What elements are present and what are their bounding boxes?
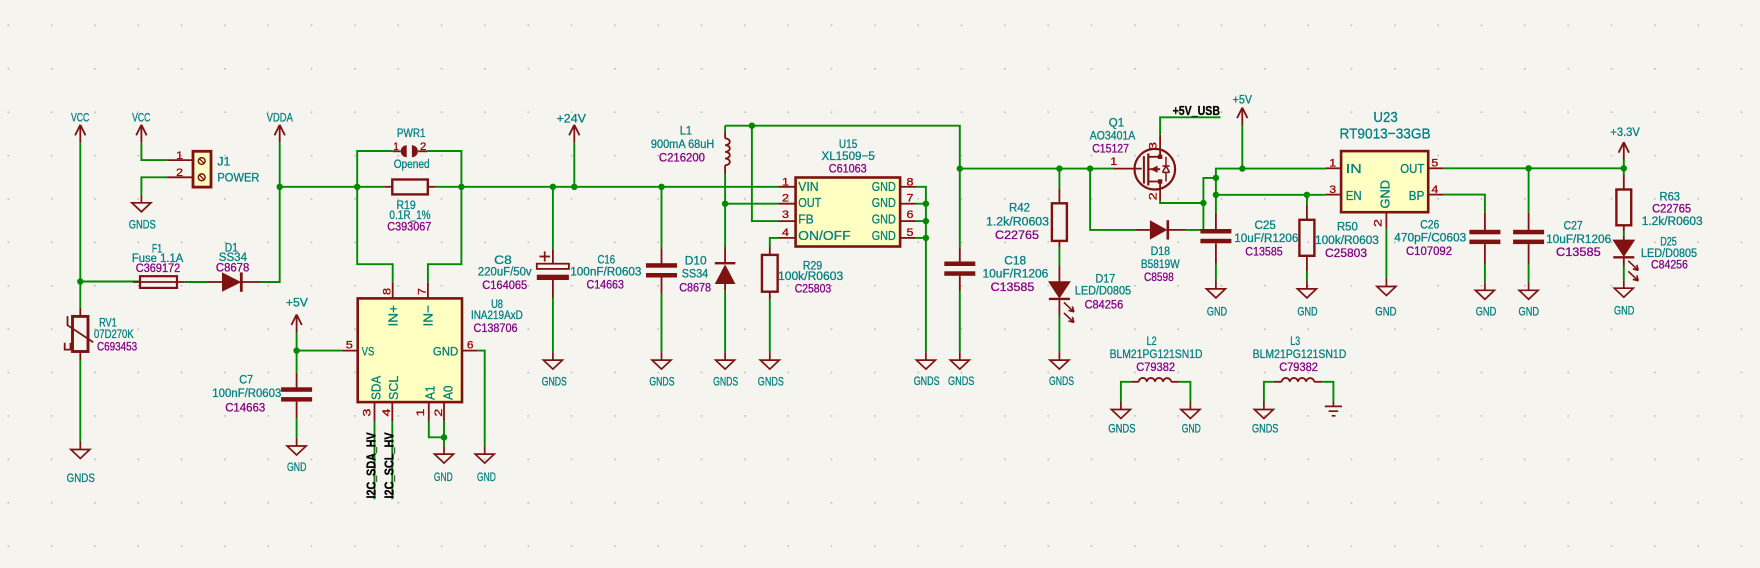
- IC U8 INA219AxD body: [358, 282, 462, 402]
- pin stub U8 VS: [342, 350, 358, 352]
- svg-text:IN+: IN+: [385, 305, 400, 327]
- ground GND (C26): [1475, 282, 1496, 318]
- svg-text:1: 1: [176, 150, 183, 162]
- earth ground (L3 right): [1325, 402, 1342, 416]
- svg-text:L1: L1: [680, 124, 692, 138]
- ground GNDS (C18): [948, 352, 974, 388]
- svg-text:C25803: C25803: [1325, 246, 1367, 260]
- junction EN / R50: [1304, 192, 1310, 198]
- svg-text:OUT: OUT: [798, 195, 821, 210]
- svg-text:C13585: C13585: [1245, 244, 1283, 258]
- svg-text:C8598: C8598: [1144, 270, 1174, 284]
- junction +5V / VS / C7: [293, 347, 299, 353]
- wire PWR1 left leg: [357, 151, 393, 187]
- resistor R42 1.2k: [986, 169, 1067, 266]
- svg-text:2: 2: [176, 167, 183, 179]
- svg-text:C84256: C84256: [1085, 298, 1124, 312]
- svg-text:GND: GND: [1519, 305, 1540, 319]
- junction rail / R42: [1056, 165, 1062, 171]
- jumper PWR1 Opened: [393, 126, 430, 171]
- svg-text:3: 3: [782, 209, 789, 221]
- ferrite bead L2 BLM21PG121SN1D: [1110, 334, 1203, 382]
- svg-text:R42: R42: [1009, 201, 1030, 215]
- wire F1 to D1: [184, 281, 207, 283]
- junction VDDA / main rail: [277, 184, 283, 190]
- power symbol VCC (far left): [71, 111, 89, 143]
- svg-text:10uF/R1206: 10uF/R1206: [1234, 231, 1298, 245]
- svg-text:GNDS: GNDS: [1252, 422, 1278, 436]
- junction EN tap: [1213, 192, 1219, 198]
- junction rail / PWR1 left: [354, 184, 360, 190]
- capacitor C18 10uF: [944, 169, 1048, 353]
- pin stub U15 GND6: [900, 220, 916, 222]
- svg-text:C8678: C8678: [679, 281, 711, 295]
- pin stub U15 ON/OFF: [779, 237, 796, 239]
- wire Q1 drain: [1160, 201, 1203, 203]
- svg-text:C79382: C79382: [1279, 360, 1318, 374]
- svg-text:8: 8: [381, 288, 393, 295]
- svg-text:10uF/R1206: 10uF/R1206: [983, 267, 1049, 281]
- svg-text:VCC: VCC: [132, 111, 150, 125]
- power symbol +5V (U8): [286, 296, 309, 333]
- wire U23 BP to C26: [1443, 195, 1485, 213]
- svg-text:GND: GND: [1476, 305, 1497, 319]
- ground GNDS (under J1): [129, 195, 156, 232]
- ground GND (C27): [1519, 282, 1540, 318]
- svg-text:1: 1: [782, 177, 789, 189]
- ground GNDS (RV1): [67, 442, 95, 486]
- capacitor C25 10uF: [1200, 213, 1298, 281]
- svg-text:A1: A1: [423, 386, 438, 401]
- connector J1 POWER: [167, 151, 211, 187]
- LED D25: [1613, 234, 1697, 280]
- svg-text:GND: GND: [1375, 305, 1396, 319]
- pin stub SDA: [374, 402, 376, 421]
- svg-text:B5819W: B5819W: [1141, 257, 1180, 271]
- diode D10 SS34 catch: [679, 204, 735, 352]
- svg-text:C27: C27: [1564, 219, 1583, 233]
- wire FB feedback: [752, 126, 779, 221]
- ground GND (R50): [1297, 281, 1317, 319]
- svg-text:GND: GND: [1614, 304, 1634, 318]
- svg-text:EN: EN: [1346, 188, 1362, 203]
- svg-text:GND: GND: [477, 470, 496, 484]
- svg-text:ON/OFF: ON/OFF: [798, 228, 850, 243]
- wire RV1 to GNDS: [79, 360, 81, 442]
- wire U15 GND bus: [916, 187, 926, 352]
- svg-text:100nF/R0603: 100nF/R0603: [570, 265, 641, 279]
- svg-text:C13585: C13585: [991, 280, 1035, 294]
- wire SDA net: [374, 421, 376, 499]
- wire D1 to VDDA rail: [260, 187, 280, 282]
- wire L3 left to GNDS: [1264, 382, 1274, 402]
- svg-text:SS34: SS34: [682, 267, 709, 281]
- junction GND bus pin5: [923, 235, 929, 241]
- svg-text:GNDS: GNDS: [758, 375, 784, 389]
- svg-text:I2C_SCL_HV: I2C_SCL_HV: [383, 432, 397, 499]
- svg-text:+5V: +5V: [286, 296, 309, 310]
- pin stub U8 GND pin 6: [462, 350, 478, 352]
- junction VCC/F1/RV1 node: [77, 278, 83, 284]
- svg-text:7: 7: [417, 288, 429, 295]
- wire L2 left to GNDS: [1121, 382, 1131, 402]
- pin stub A1: [428, 402, 430, 421]
- wire rail R19 to U15 VIN: [436, 186, 779, 188]
- power symbol +24V: [557, 112, 587, 143]
- svg-text:VDDA: VDDA: [267, 111, 294, 125]
- pin stub U15 VIN: [779, 186, 796, 188]
- svg-text:LED/D0805: LED/D0805: [1075, 284, 1131, 298]
- diode D18 B5819W: [1135, 220, 1185, 284]
- svg-text:RT9013−33GB: RT9013−33GB: [1340, 126, 1431, 143]
- svg-text:GND: GND: [872, 212, 896, 227]
- svg-text:C7: C7: [239, 373, 253, 387]
- svg-text:C15127: C15127: [1092, 142, 1129, 156]
- ground GNDS (C16): [649, 352, 674, 389]
- wire +24V stem: [573, 143, 575, 187]
- svg-text:1: 1: [1110, 156, 1117, 168]
- wire D18 cathode to +5V node: [1186, 203, 1204, 230]
- junction rail / PWR1 right: [458, 184, 464, 190]
- svg-text:GND: GND: [1377, 180, 1392, 209]
- wire +5V column to U23 IN: [1216, 169, 1326, 213]
- capacitor C27 10uF: [1513, 168, 1611, 282]
- svg-text:SDA: SDA: [369, 376, 384, 400]
- svg-text:PWR1: PWR1: [397, 126, 426, 140]
- wire buck output rail (5V from L1): [725, 126, 960, 169]
- svg-text:+3.3V: +3.3V: [1610, 125, 1640, 139]
- svg-text:Opened: Opened: [394, 157, 430, 171]
- svg-text:R50: R50: [1337, 220, 1358, 234]
- svg-text:GND: GND: [434, 470, 453, 484]
- svg-text:1: 1: [1329, 158, 1336, 170]
- svg-text:10uF/R1206: 10uF/R1206: [1546, 232, 1611, 246]
- pin stub U15 OUT: [779, 203, 796, 205]
- junction +5V node / C25 column: [1213, 175, 1219, 181]
- wire EN line: [1216, 194, 1326, 196]
- diode D1 SS34: [207, 240, 260, 291]
- wire +5V node down to C7: [296, 351, 298, 373]
- junction switch node (L1/OUT/D10): [722, 201, 728, 207]
- capacitor C8 220uF electrolytic: [478, 187, 569, 352]
- junction GND bus pin6: [923, 218, 929, 224]
- wire 5V rail to Q1 gate: [960, 168, 1114, 170]
- svg-text:AO3401A: AO3401A: [1090, 129, 1136, 143]
- wire main input rail to R19: [280, 186, 385, 188]
- ground GND (under C7): [287, 438, 306, 474]
- svg-text:100nF/R0603: 100nF/R0603: [212, 386, 281, 400]
- IC U15 XL1509-5 body: [796, 178, 901, 247]
- ground GNDS (L2 left): [1108, 402, 1135, 436]
- resistor R29 100k: [762, 238, 843, 352]
- svg-text:GND: GND: [872, 228, 896, 243]
- ground GNDS (L3 left): [1252, 402, 1278, 436]
- svg-text:C14663: C14663: [587, 278, 625, 292]
- wire U23 GND to ground: [1385, 229, 1387, 279]
- svg-text:C79382: C79382: [1136, 360, 1175, 374]
- ground GND (A0/A1): [434, 446, 454, 484]
- ground GNDS (U15): [914, 352, 940, 388]
- wire U23 OUT rail: [1443, 167, 1623, 169]
- pin stub A0: [443, 402, 445, 421]
- svg-text:1.2k/R0603: 1.2k/R0603: [1642, 214, 1703, 228]
- svg-text:+24V: +24V: [557, 112, 587, 126]
- ground GNDS (R29): [758, 352, 784, 389]
- svg-text:VS: VS: [362, 344, 375, 358]
- svg-text:IN−: IN−: [421, 305, 436, 327]
- capacitor C16 100nF: [570, 187, 677, 352]
- svg-text:7: 7: [907, 193, 914, 205]
- wire L1 to OUT node: [724, 174, 726, 204]
- resistor R50 100k: [1299, 195, 1379, 281]
- svg-text:C25803: C25803: [795, 282, 832, 296]
- svg-text:900mA 68uH: 900mA 68uH: [651, 137, 714, 151]
- svg-text:GNDS: GNDS: [1108, 422, 1135, 436]
- ground GNDS (D17): [1049, 352, 1074, 388]
- svg-text:8: 8: [907, 177, 914, 189]
- svg-text:+5V: +5V: [1233, 93, 1253, 107]
- svg-text:5: 5: [1431, 158, 1438, 170]
- svg-text:C693453: C693453: [97, 340, 137, 354]
- fuse F1: [80, 241, 184, 288]
- pin stub U15 GND8: [900, 186, 916, 188]
- svg-text:Q1: Q1: [1109, 116, 1124, 130]
- svg-text:GNDS: GNDS: [1049, 374, 1074, 388]
- svg-text:GNDS: GNDS: [649, 375, 674, 389]
- svg-text:C84256: C84256: [1651, 258, 1688, 272]
- svg-text:IN: IN: [1346, 161, 1362, 176]
- svg-text:D10: D10: [685, 254, 707, 268]
- svg-text:C26: C26: [1420, 217, 1439, 231]
- svg-text:L2: L2: [1147, 334, 1157, 348]
- wire SCL net: [391, 421, 393, 499]
- ferrite bead L3 BLM21PG121SN1D: [1253, 334, 1347, 382]
- ground GND (D25): [1614, 280, 1634, 317]
- svg-text:1: 1: [393, 141, 398, 153]
- svg-text:C107092: C107092: [1406, 244, 1452, 258]
- junction +5V node (drain/D18): [1200, 200, 1206, 206]
- svg-text:GNDS: GNDS: [67, 471, 95, 485]
- svg-text:VIN: VIN: [798, 179, 818, 194]
- wire D18 anode branch: [1090, 169, 1135, 230]
- svg-text:3: 3: [1329, 184, 1336, 196]
- pin stub U23 BP: [1428, 194, 1443, 196]
- svg-text:C216200: C216200: [659, 151, 705, 165]
- svg-text:GND: GND: [872, 179, 896, 194]
- svg-text:VCC: VCC: [71, 111, 89, 125]
- svg-text:C22765: C22765: [995, 228, 1039, 242]
- power symbol +3.3V: [1610, 125, 1640, 160]
- svg-text:1.2k/R0603: 1.2k/R0603: [986, 215, 1049, 229]
- svg-text:D18: D18: [1151, 244, 1171, 258]
- capacitor C26 470pF: [1394, 212, 1500, 282]
- power symbol VCC (J1): [132, 111, 150, 143]
- svg-text:GNDS: GNDS: [914, 374, 940, 388]
- svg-text:1: 1: [415, 409, 427, 417]
- junction +24V / rail: [571, 184, 577, 190]
- junction +5V arrow / IN rail: [1239, 165, 1245, 171]
- wire U8 pin 6 to GND: [478, 351, 485, 447]
- pin stub U23 GND: [1385, 212, 1387, 229]
- wire PWR1 right leg: [427, 151, 461, 187]
- svg-text:2: 2: [1373, 219, 1385, 227]
- wire J1 pin 2 to GNDS: [141, 177, 167, 195]
- wire Q1 source to +5V_USB: [1160, 117, 1220, 134]
- wire VCC to J1 pin 1: [141, 143, 167, 160]
- junction OUT / C27: [1525, 165, 1531, 171]
- svg-text:FB: FB: [798, 212, 814, 227]
- wire VCC down to F1 node: [79, 143, 81, 282]
- svg-text:GND: GND: [433, 345, 459, 359]
- ground GND (U23 pin2): [1375, 279, 1396, 319]
- svg-text:2: 2: [1147, 192, 1159, 200]
- pin stub U23 OUT: [1428, 167, 1443, 169]
- wire L3 right to earth: [1322, 382, 1333, 402]
- svg-text:C138706: C138706: [474, 321, 518, 335]
- svg-text:A0: A0: [440, 386, 455, 401]
- pin stub U23 IN: [1326, 167, 1341, 169]
- svg-text:GND: GND: [1207, 305, 1227, 319]
- svg-text:BLM21PG121SN1D: BLM21PG121SN1D: [1253, 347, 1347, 361]
- svg-text:+5V_USB: +5V_USB: [1173, 104, 1220, 118]
- capacitor C7 100nF: [212, 373, 312, 439]
- wire +5V stem (right): [1241, 125, 1243, 169]
- svg-text:INA219AxD: INA219AxD: [471, 308, 523, 322]
- inductor L1 68uH: [651, 124, 730, 174]
- wire +3.3V stem: [1623, 160, 1625, 169]
- wire A1 to A0: [429, 421, 444, 437]
- wire L2 right to GND: [1179, 382, 1190, 402]
- ground GNDS (C8): [542, 352, 567, 389]
- svg-text:GND: GND: [872, 195, 896, 210]
- svg-text:5: 5: [907, 227, 914, 239]
- svg-text:3: 3: [361, 409, 373, 417]
- junction OUT / +3.3V / R63: [1621, 165, 1627, 171]
- svg-text:220uF/50v: 220uF/50v: [478, 265, 532, 279]
- svg-text:GND: GND: [1182, 422, 1201, 436]
- power symbol +5V (USB switch): [1233, 93, 1253, 126]
- svg-text:4: 4: [381, 409, 393, 417]
- svg-text:GNDS: GNDS: [713, 375, 738, 389]
- pin stub SCL: [391, 402, 393, 421]
- junction rail / D18 branch: [1087, 165, 1093, 171]
- svg-text:C8678: C8678: [216, 260, 250, 274]
- svg-text:470pF/C0603: 470pF/C0603: [1394, 230, 1466, 244]
- wire +5V stem: [296, 333, 298, 351]
- svg-text:GNDS: GNDS: [948, 374, 974, 388]
- svg-text:C393067: C393067: [387, 220, 431, 234]
- svg-text:BP: BP: [1409, 188, 1425, 203]
- resistor R63 1.2k: [1616, 168, 1702, 236]
- svg-text:3: 3: [1147, 142, 1159, 150]
- wire VDDA stem: [279, 143, 281, 187]
- svg-text:POWER: POWER: [217, 170, 259, 184]
- junction rail corner / C18: [957, 165, 963, 171]
- svg-text:C18: C18: [1004, 254, 1026, 268]
- svg-text:C61063: C61063: [829, 162, 867, 176]
- junction rail / C16: [658, 184, 664, 190]
- svg-text:GND: GND: [1297, 305, 1317, 319]
- svg-text:GNDS: GNDS: [129, 217, 156, 231]
- svg-text:GNDS: GNDS: [542, 375, 567, 389]
- pin stub U23 EN: [1326, 194, 1341, 196]
- svg-text:SCL: SCL: [386, 376, 401, 400]
- svg-text:GND: GND: [287, 460, 306, 474]
- wire U8 IN- sense loop: [428, 187, 462, 282]
- svg-text:U23: U23: [1373, 109, 1397, 126]
- svg-text:J1: J1: [217, 154, 230, 168]
- svg-text:I2C_SDA_HV: I2C_SDA_HV: [364, 432, 378, 499]
- svg-text:C369172: C369172: [136, 261, 181, 275]
- pin stub U15 GND7: [900, 203, 916, 205]
- transistor Q1 AO3401A: [1090, 116, 1175, 201]
- svg-text:L3: L3: [1290, 334, 1300, 348]
- ground GNDS (D10): [713, 352, 738, 389]
- wire +5V to U8 VS: [297, 350, 342, 352]
- svg-text:BLM21PG121SN1D: BLM21PG121SN1D: [1110, 347, 1203, 361]
- svg-text:OUT: OUT: [1400, 161, 1424, 176]
- svg-text:C14663: C14663: [225, 401, 265, 415]
- wire OUT pin to switch node: [725, 203, 778, 205]
- svg-text:2: 2: [420, 141, 426, 153]
- resistor R19 0.1R_1%: [384, 180, 436, 234]
- wire U8 IN+ sense loop: [357, 187, 393, 282]
- junction FB tap: [749, 123, 755, 129]
- svg-text:4: 4: [782, 227, 789, 239]
- svg-text:4: 4: [1431, 184, 1438, 196]
- junction A1/A0: [441, 434, 447, 440]
- svg-text:C13585: C13585: [1556, 245, 1601, 259]
- junction rail / C8: [550, 184, 556, 190]
- pin stub U15 GND5: [900, 237, 916, 239]
- varistor RV1 07D270K: [65, 282, 138, 361]
- pin stub U15 FB: [779, 220, 796, 222]
- svg-text:100k/R0603: 100k/R0603: [1315, 233, 1379, 247]
- wire +5V node riser: [1203, 178, 1216, 203]
- IC U23 RT9013-33GB body: [1341, 151, 1428, 212]
- ground GND (U8 pin 6): [475, 446, 496, 484]
- power symbol VDDA: [267, 111, 294, 143]
- ground GND (C25): [1206, 281, 1227, 319]
- ground GND (L2 right): [1181, 402, 1201, 436]
- wire A0 down to GND: [443, 421, 445, 446]
- svg-text:C164065: C164065: [482, 278, 527, 292]
- svg-text:6: 6: [907, 209, 914, 221]
- junction GND bus pin7: [923, 201, 929, 207]
- svg-text:2: 2: [782, 193, 789, 205]
- LED D17: [1049, 266, 1131, 352]
- svg-text:C25: C25: [1255, 218, 1277, 232]
